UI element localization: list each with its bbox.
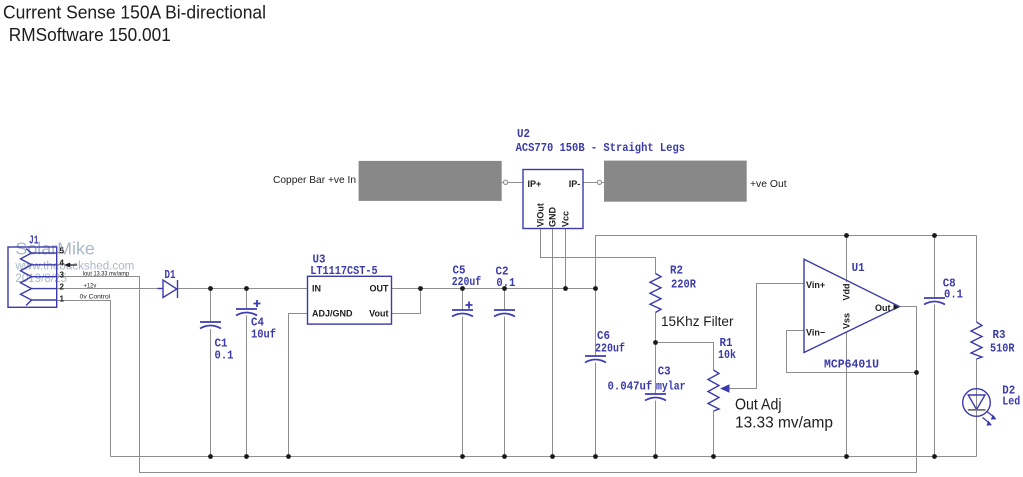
svg-text:3: 3 [60,271,65,280]
svg-text:D1: D1 [165,268,176,282]
svg-text:Copper Bar +ve In: Copper Bar +ve In [273,174,356,186]
svg-text:OUT: OUT [370,284,390,294]
svg-text:510R: 510R [990,341,1015,355]
svg-text:R2: R2 [670,263,683,277]
svg-text:0.1: 0.1 [215,348,234,362]
svg-text:5: 5 [60,247,65,256]
svg-text:ACS770 150B - Straight Legs: ACS770 150B - Straight Legs [516,141,685,155]
svg-text:0.1: 0.1 [496,276,515,290]
svg-text:mylar: mylar [656,379,686,393]
svg-text:10k: 10k [718,348,736,362]
svg-text:Out Adj: Out Adj [735,397,782,414]
svg-text:+ve Out: +ve Out [750,178,787,190]
svg-text:4: 4 [60,259,65,268]
svg-text:+12v: +12v [84,282,97,289]
svg-text:13.33 mv/amp: 13.33 mv/amp [735,415,833,432]
svg-text:Current Sense 150A Bi-directio: Current Sense 150A Bi-directional [3,1,266,22]
svg-text:220uf: 220uf [595,342,625,356]
svg-text:220R: 220R [671,278,697,292]
svg-text:U2: U2 [517,127,530,141]
svg-text:ViOut: ViOut [536,203,546,227]
svg-text:Vin−: Vin− [806,328,825,338]
svg-text:Vin+: Vin+ [806,280,825,290]
svg-text:10uf: 10uf [251,327,276,341]
svg-text:220uf: 220uf [452,275,482,289]
svg-text:IP+: IP+ [528,179,542,189]
svg-text:Vout: Vout [369,309,388,319]
svg-text:MCP6401U: MCP6401U [824,358,879,372]
svg-text:R3: R3 [993,328,1006,342]
svg-text:Vdd: Vdd [842,284,852,301]
svg-text:Iout 13.33 mv/amp: Iout 13.33 mv/amp [83,270,130,277]
svg-text:J1: J1 [29,234,39,248]
svg-text:Led: Led [1002,395,1020,409]
svg-text:15Khz Filter: 15Khz Filter [661,314,734,329]
svg-text:U1: U1 [852,261,865,275]
svg-text:C3: C3 [658,364,671,378]
svg-text:IP-: IP- [569,179,581,189]
svg-text:GND: GND [548,207,558,228]
svg-text:2: 2 [60,283,65,292]
svg-text:Out: Out [875,303,891,313]
svg-text:IN: IN [312,284,321,294]
svg-text:1: 1 [60,295,65,304]
svg-text:RMSoftware 150.001: RMSoftware 150.001 [9,24,171,45]
svg-text:ADJ/GND: ADJ/GND [312,309,353,319]
svg-text:0.1: 0.1 [944,287,963,301]
svg-text:Vcc: Vcc [561,211,571,227]
svg-text:Vss: Vss [842,313,852,329]
svg-text:0.047uf: 0.047uf [608,379,653,393]
svg-text:0v Control: 0v Control [80,294,111,301]
svg-text:LT1117CST-5: LT1117CST-5 [310,264,377,278]
